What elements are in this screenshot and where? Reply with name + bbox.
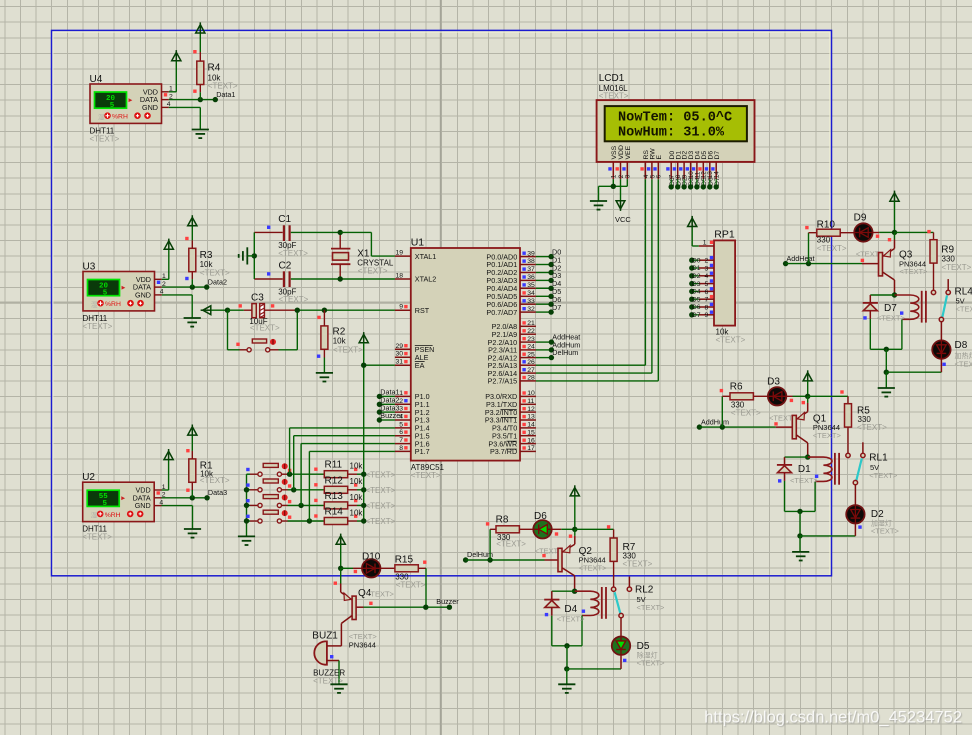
svg-text:<TEXT>: <TEXT> (579, 563, 608, 572)
junction R10 tap (806, 261, 811, 266)
push button (reset) (247, 348, 251, 352)
resistor R2 (321, 326, 328, 349)
wires U1 P1.4-P1.7 to keys (290, 427, 395, 429)
resistor R8 330 (490, 528, 496, 530)
wire reset button right leg (270, 349, 279, 351)
relay RL2 coil (575, 591, 599, 615)
svg-text:<TEXT>: <TEXT> (83, 322, 113, 331)
svg-text:D3: D3 (692, 281, 701, 288)
transistor Q4 PN3644 (340, 568, 342, 583)
svg-text:<TEXT>: <TEXT> (208, 81, 238, 90)
ground (RL4) (878, 388, 895, 397)
RP1 pin 2 D0 (699, 259, 714, 261)
svg-text:D7: D7 (692, 312, 701, 319)
relay RL4 coil (895, 295, 919, 319)
svg-text:8: 8 (399, 445, 403, 452)
U1 pin 5 P1.4 (395, 427, 411, 429)
svg-text:VSS: VSS (611, 145, 618, 159)
svg-text:R4: R4 (208, 63, 221, 74)
junction buzzer power (338, 566, 343, 571)
svg-text:R14: R14 (325, 507, 344, 518)
junction RL2 gnd rail (564, 666, 569, 671)
svg-text:<TEXT>: <TEXT> (716, 336, 746, 345)
resistor R12 (324, 486, 347, 493)
diode D7 (870, 294, 894, 296)
RP1 pin 1 (699, 245, 714, 247)
U1 pin 31 EA (395, 364, 411, 366)
U1 pin 37 P0.2/AD2 (520, 272, 536, 274)
power arrow (RP1) (688, 218, 697, 226)
svg-text:<TEXT>: <TEXT> (623, 559, 653, 568)
svg-text:11: 11 (527, 398, 534, 405)
svg-text:D0: D0 (692, 257, 701, 264)
junction relay RL4 coil top (892, 292, 897, 297)
node DelHum (left) (463, 557, 468, 562)
LCD1 LM016L body (597, 100, 755, 162)
U1 pin 35 P0.4/AD4 (520, 287, 536, 289)
svg-text:<TEXT>: <TEXT> (790, 476, 819, 485)
svg-text:10k: 10k (350, 462, 364, 471)
svg-text:10k: 10k (350, 477, 364, 486)
svg-text:<TEXT>: <TEXT> (366, 517, 396, 526)
wire key4 to R14 (282, 520, 288, 522)
node AddHeat (left) (783, 261, 788, 266)
RP1 pin 7 D5 (699, 298, 714, 300)
junction key1 column (287, 472, 292, 477)
sensor U4 DHT11 body (90, 84, 162, 123)
svg-text:▶: ▶ (122, 285, 126, 291)
svg-text:34: 34 (527, 290, 535, 297)
svg-text:P2.7/A15: P2.7/A15 (488, 377, 518, 386)
U3 pin stubs (155, 278, 162, 280)
svg-text:D6: D6 (692, 304, 701, 311)
U1 pin 28 P2.7/A15 (520, 380, 536, 382)
node Buzzer (447, 605, 452, 610)
svg-text:AddHum: AddHum (701, 418, 729, 427)
junction keypad right rail (361, 503, 366, 508)
svg-text:<TEXT>: <TEXT> (411, 471, 441, 480)
svg-text:U1: U1 (411, 237, 425, 249)
svg-text:<TEXT>: <TEXT> (200, 476, 230, 485)
junction D9/power/R9 (892, 230, 897, 235)
power arrow (R3) (188, 217, 197, 225)
svg-text:<TEXT>: <TEXT> (358, 267, 388, 276)
svg-text:<TEXT>: <TEXT> (942, 263, 972, 272)
svg-text:D5: D5 (692, 296, 701, 303)
svg-text:U2: U2 (82, 472, 95, 483)
svg-text:Data1: Data1 (216, 90, 235, 99)
svg-text:https://blog.csdn.net/m0_45234: https://blog.csdn.net/m0_45234752 (704, 709, 962, 727)
U1 pin 29 PSEN (395, 348, 411, 350)
U1 pin 10 P3.0/RXD (520, 395, 536, 397)
junction key3 column (298, 503, 303, 508)
svg-text:%RH: %RH (112, 114, 128, 121)
svg-text:31: 31 (395, 359, 403, 366)
svg-text:<TEXT>: <TEXT> (366, 589, 395, 598)
wire reset button left leg (227, 310, 229, 350)
sheet border (52, 30, 832, 575)
svg-text:XTAL1: XTAL1 (415, 252, 436, 261)
svg-text:5: 5 (399, 421, 403, 428)
power arrow (block3) (570, 488, 579, 496)
wire LCD VSS/VEE to ground (612, 179, 614, 186)
wire U4 GND (169, 106, 201, 108)
svg-text:E: E (656, 155, 663, 160)
svg-text:<TEXT>: <TEXT> (731, 409, 761, 418)
svg-text:D6: D6 (534, 511, 547, 522)
svg-text:R8: R8 (496, 515, 509, 526)
svg-text:<TEXT>: <TEXT> (900, 267, 929, 276)
node Data2 (204, 284, 209, 289)
junction RL2 rail (564, 643, 569, 648)
wire U2 GND (162, 505, 193, 507)
junction R3/DATA (190, 284, 195, 289)
svg-text:9: 9 (705, 312, 709, 319)
wire LCD VDD to VCC (620, 179, 622, 201)
U1 pin 21 P2.0/A8 (520, 325, 536, 327)
svg-text:D3: D3 (767, 377, 780, 388)
wire AddHeat to base (786, 263, 862, 265)
U4 VDD wire to power (169, 91, 177, 93)
U1 pin 17 P3.7/RD (520, 450, 536, 452)
U1 pin 39 P0.0/AD0 (520, 256, 536, 258)
svg-text:1: 1 (399, 390, 403, 397)
svg-text:6: 6 (705, 289, 709, 296)
microcontroller U1 AT89C51 body (411, 248, 520, 461)
junction RL4 rail (884, 347, 889, 352)
svg-text:<TEXT>: <TEXT> (956, 305, 972, 314)
push button key1 (247, 473, 251, 475)
U3 VDD wire to power (162, 278, 169, 280)
LED D5 (612, 637, 630, 655)
junction keypad left rail (244, 487, 249, 492)
svg-text:XTAL2: XTAL2 (415, 275, 436, 284)
relay RL1 coil (808, 457, 832, 481)
U2 pin stubs (154, 489, 161, 491)
svg-text:9: 9 (399, 304, 403, 311)
svg-text:R12: R12 (325, 475, 344, 486)
svg-text:<TEXT>: <TEXT> (82, 533, 112, 542)
svg-text:36: 36 (527, 274, 535, 281)
power arrow (U3 VDD) (164, 241, 173, 249)
svg-text:5: 5 (103, 290, 108, 298)
power arrow (block2) (803, 373, 812, 381)
svg-text:湿: 湿 (98, 112, 105, 121)
U1 pin 36 P0.3/AD3 (520, 279, 536, 281)
respack RP1 body (714, 240, 735, 325)
U1 pin 25 P2.4/A12 (520, 357, 536, 359)
U1 pin 2 P1.1 (395, 403, 411, 405)
resistor R10 330 (809, 232, 817, 234)
wire RL1 to D2 (854, 485, 856, 505)
junction key4 column (307, 518, 312, 523)
svg-text:R15: R15 (395, 555, 414, 566)
wire key3 to R13 (282, 504, 288, 506)
svg-text:<TEXT>: <TEXT> (877, 313, 906, 322)
junction keypad left rail (244, 503, 249, 508)
svg-text:%RH: %RH (105, 301, 121, 308)
svg-text:7: 7 (705, 297, 709, 304)
capacitor C1 (283, 225, 285, 241)
svg-text:U3: U3 (83, 261, 96, 272)
svg-text:LCD1: LCD1 (599, 73, 625, 84)
resistor R15 330 (380, 567, 395, 569)
svg-text:C1: C1 (278, 214, 291, 225)
U1 pin 32 P0.7/AD7 (520, 311, 536, 313)
junction RL1 rail (797, 509, 802, 514)
svg-text:<TEXT>: <TEXT> (278, 249, 308, 258)
svg-text:C3: C3 (251, 293, 264, 304)
svg-text:32: 32 (527, 306, 535, 313)
resistor R9 330 (933, 232, 935, 239)
svg-text:BUZ1: BUZ1 (312, 631, 338, 642)
resistor R5 330 (847, 396, 849, 403)
U1 pin 22 P2.1/A9 (520, 333, 536, 335)
U1 pin 8 P1.7 (395, 450, 411, 452)
junction X1 bottom (338, 276, 343, 281)
junction cap rail / ground (252, 253, 257, 258)
wire LCD RS to U1 P2.5 (644, 179, 646, 365)
U1 pin 9 RST (395, 309, 411, 311)
svg-text:26: 26 (527, 359, 535, 366)
node Data1 (213, 97, 218, 102)
svg-text:21: 21 (527, 320, 535, 327)
svg-text:5: 5 (705, 281, 709, 288)
svg-text:R6: R6 (730, 382, 743, 393)
svg-text:<TEXT>: <TEXT> (396, 580, 426, 589)
svg-text:Buzzer: Buzzer (380, 411, 403, 420)
svg-text:27: 27 (527, 367, 535, 374)
junction RL1 gnd rail (797, 533, 802, 538)
power arrow (EA / keypad rail) (359, 334, 368, 342)
svg-text:P0.7/AD7: P0.7/AD7 (486, 308, 517, 317)
svg-text:19: 19 (395, 250, 403, 257)
svg-text:R3: R3 (200, 250, 213, 261)
wire R15 to buzzer node (425, 568, 427, 607)
svg-text:<TEXT>: <TEXT> (366, 486, 396, 495)
junction relay RL1 coil top (805, 454, 810, 459)
svg-text:12: 12 (527, 406, 535, 413)
wire RL4 bottom rail (870, 348, 902, 350)
svg-text:P3.7/RD: P3.7/RD (490, 447, 517, 456)
svg-text:10k: 10k (350, 493, 364, 502)
junction reset rail (225, 308, 230, 313)
svg-text:<TEXT>: <TEXT> (871, 526, 900, 535)
resistor R7 330 (613, 529, 615, 538)
junction R6 tap (720, 424, 725, 429)
svg-text:23: 23 (527, 336, 535, 343)
svg-text:RST: RST (415, 306, 430, 315)
svg-text:湿: 湿 (91, 510, 98, 519)
resistor R1 (189, 459, 196, 482)
ground (RL1) (792, 552, 809, 561)
svg-text:10k: 10k (333, 337, 347, 346)
svg-text:NowHum: 31.0%: NowHum: 31.0% (618, 126, 725, 141)
svg-text:39: 39 (527, 250, 535, 257)
wire RL1 bottom rail (785, 510, 816, 512)
power arrow (U4 VDD) (172, 52, 181, 60)
U1 pin 4 P1.3 (395, 419, 411, 421)
svg-text:D1: D1 (798, 464, 811, 475)
transistor Q1 PN3644 (776, 426, 793, 428)
U1 P2 net stubs AddHeat/AddHum/DelHum (536, 341, 552, 343)
power arrow (block1) (890, 193, 899, 201)
svg-text:<TEXT>: <TEXT> (250, 324, 280, 333)
U1 pin 26 P2.5/A13 (520, 364, 536, 366)
ground (LCD) (590, 201, 607, 210)
ground (keypad) (238, 536, 255, 545)
svg-text:<TEXT>: <TEXT> (557, 615, 586, 624)
LED D2 (846, 505, 864, 523)
svg-text:RL1: RL1 (869, 452, 888, 463)
svg-text:38: 38 (527, 258, 535, 265)
junction EA (361, 363, 366, 368)
wire EA rail (363, 343, 365, 521)
svg-text:<TEXT>: <TEXT> (857, 423, 887, 432)
svg-text:RL2: RL2 (635, 585, 654, 596)
junction key2 column (291, 487, 296, 492)
svg-text:35: 35 (527, 282, 535, 289)
junction keypad right rail (361, 472, 366, 477)
svg-text:D2: D2 (692, 273, 701, 280)
svg-text:3: 3 (705, 265, 709, 272)
LED D3 (768, 387, 786, 405)
svg-text:Buzzer: Buzzer (436, 597, 459, 606)
svg-text:GND: GND (142, 103, 158, 112)
power arrow (buzzer) (336, 536, 345, 544)
U1 pin 38 P0.1/AD1 (520, 264, 536, 266)
svg-text:R13: R13 (325, 491, 344, 502)
svg-text:湿: 湿 (91, 300, 98, 309)
svg-text:6: 6 (656, 174, 663, 178)
svg-text:10: 10 (527, 390, 535, 397)
wire RL4 to D8 (940, 322, 942, 341)
junction relay RL2 coil top (572, 589, 577, 594)
wire to R9 (895, 231, 934, 233)
U1 pin 18 XTAL2 (395, 278, 411, 280)
svg-text:14: 14 (714, 171, 721, 179)
capacitor C2 (283, 271, 285, 287)
svg-text:<TEXT>: <TEXT> (955, 360, 972, 369)
U1 pin 14 P3.4/T0 (520, 427, 536, 429)
node Data3 (204, 495, 209, 500)
svg-text:4: 4 (705, 273, 709, 280)
svg-text:D7: D7 (884, 303, 897, 314)
wire DelHum to base (466, 559, 545, 561)
svg-text:GND: GND (135, 501, 151, 510)
svg-text:10k: 10k (350, 508, 364, 517)
U1 pin 34 P0.5/AD5 (520, 295, 536, 297)
svg-text:<TEXT>: <TEXT> (869, 471, 898, 480)
diode D1 (785, 456, 808, 458)
svg-text:8: 8 (705, 304, 709, 311)
wire key1 to R11 (282, 473, 288, 475)
svg-text:Data2: Data2 (208, 278, 227, 287)
svg-text:<TEXT>: <TEXT> (279, 295, 309, 304)
svg-text:D7: D7 (552, 303, 561, 312)
svg-text:▶: ▶ (121, 496, 125, 502)
sheet inner pale line (53, 32, 830, 575)
U1 P1 net stubs (379, 395, 395, 397)
junction D6/power/R7 (572, 527, 577, 532)
svg-text:▶: ▶ (129, 97, 133, 103)
wire U4 DATA net (169, 99, 216, 101)
resistor R11 (324, 471, 347, 478)
svg-text:D8: D8 (955, 340, 968, 351)
RP1 pin 8 D6 (699, 306, 714, 308)
sensor U3 DHT11 body (83, 272, 155, 311)
svg-text:25: 25 (527, 351, 535, 358)
junction keypad right rail (361, 487, 366, 492)
wire C1 to XTAL1 (340, 231, 371, 233)
relay RL2 contacts (611, 587, 615, 591)
svg-text:22: 22 (527, 328, 535, 335)
transistor Q2 PN3644 (545, 559, 559, 561)
RP1 pin 5 D3 (699, 283, 714, 285)
svg-text:D9: D9 (854, 212, 867, 223)
power arrow (reset, pointing left) (203, 306, 211, 315)
LED D8 (932, 340, 950, 358)
U1 pin 13 P3.3/INT1 (520, 419, 536, 421)
junction R1/DATA (190, 495, 195, 500)
svg-text:<TEXT>: <TEXT> (333, 346, 363, 355)
VCC arrow (LCD) (616, 201, 625, 209)
U1 pin 15 P3.5/T1 (520, 435, 536, 437)
LED D9 (854, 223, 872, 241)
U1 pin 23 P2.2/A10 (520, 341, 536, 343)
U1 pin 11 P3.1/TXD (520, 403, 536, 405)
svg-text:<TEXT>: <TEXT> (366, 470, 396, 479)
svg-text:DelHum: DelHum (552, 348, 578, 357)
wire AddHum to base (699, 426, 775, 428)
svg-text:7: 7 (399, 437, 403, 444)
svg-text:6: 6 (399, 429, 403, 436)
svg-text:EA: EA (415, 361, 425, 370)
svg-text:13: 13 (527, 414, 535, 421)
wire RP1 pin1 to power (692, 245, 699, 247)
junction buzzer node (423, 605, 428, 610)
ground (R2) (316, 373, 333, 382)
svg-text:D4: D4 (692, 289, 701, 296)
svg-text:2: 2 (399, 398, 403, 405)
svg-text:D4: D4 (564, 604, 577, 615)
svg-text:P1.7: P1.7 (415, 447, 430, 456)
junction RST/R2 (322, 308, 327, 313)
wire to R7 (575, 528, 614, 530)
svg-text:17: 17 (527, 445, 535, 452)
U1 pin 12 P3.2/INT0 (520, 411, 536, 413)
push button key3 (247, 504, 251, 506)
wire U3 DATA net (162, 286, 207, 288)
resistor R14 (324, 518, 347, 525)
U1 P0 net stubs D0-D7 (536, 256, 551, 258)
ground (RL2) (558, 684, 575, 693)
LED D10 (341, 567, 353, 569)
wire key2 to R12 (282, 489, 288, 491)
ground (U4) (192, 130, 209, 139)
svg-text:RP1: RP1 (714, 228, 735, 240)
svg-text:24: 24 (527, 344, 535, 351)
svg-text:<TEXT>: <TEXT> (496, 539, 526, 548)
svg-text:28: 28 (527, 375, 535, 382)
svg-text:29: 29 (395, 343, 403, 350)
svg-text:1: 1 (611, 174, 618, 178)
svg-text:NowTem: 05.0^C: NowTem: 05.0^C (618, 110, 732, 125)
svg-text:18: 18 (395, 273, 403, 280)
wire LCD RW to U1 P2.6 (651, 179, 653, 373)
keypad left rail (246, 474, 248, 536)
RP1 pin 3 D1 (699, 267, 714, 269)
